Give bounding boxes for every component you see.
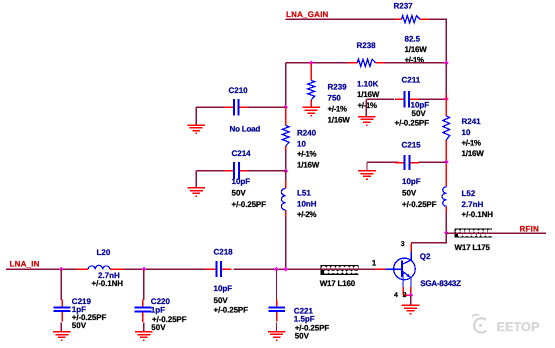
wire <box>445 140 447 187</box>
resistor R241 <box>443 116 450 140</box>
ground <box>302 107 320 115</box>
C221 labels <box>294 306 330 340</box>
svg-text:+/-1%: +/-1% <box>297 150 316 159</box>
svg-text:1pF: 1pF <box>151 305 165 314</box>
svg-text:No Load: No Load <box>230 124 261 133</box>
svg-text:C214: C214 <box>232 149 252 158</box>
microstrip W17 L160 <box>321 265 360 274</box>
svg-text:1: 1 <box>372 259 377 268</box>
junction <box>444 60 449 65</box>
svg-text:1/16W: 1/16W <box>297 160 320 169</box>
svg-text:L52: L52 <box>462 189 476 198</box>
resistor R238 <box>348 59 384 66</box>
R238 value labels <box>357 79 380 110</box>
junction <box>408 293 413 298</box>
svg-text:C211: C211 <box>402 76 421 85</box>
wire <box>446 232 546 234</box>
wire <box>285 146 287 150</box>
svg-text:750: 750 <box>328 93 342 102</box>
svg-text:LNA_GAIN: LNA_GAIN <box>286 10 329 19</box>
Q2 emitter pin 4 <box>402 287 404 295</box>
resistor R240 <box>282 126 289 147</box>
wire <box>384 62 446 64</box>
junction <box>274 267 279 272</box>
Q2 emitter pin 2 <box>410 287 412 295</box>
L51 value labels <box>297 199 317 219</box>
R240 value labels <box>297 139 320 169</box>
wire <box>276 323 278 332</box>
wire <box>248 170 286 172</box>
wire <box>445 206 447 213</box>
wire <box>366 162 368 171</box>
wire <box>445 63 447 94</box>
svg-text:3: 3 <box>401 241 405 248</box>
ground <box>135 332 153 340</box>
wire <box>419 161 447 163</box>
svg-text:2: 2 <box>403 292 407 299</box>
svg-text:LNA_IN: LNA_IN <box>10 260 40 269</box>
svg-text:+/-1%: +/-1% <box>358 101 377 110</box>
inductor L51 <box>281 188 285 210</box>
svg-text:+/-0.25PF: +/-0.25PF <box>395 118 430 127</box>
svg-text:SGA-8343Z: SGA-8343Z <box>420 279 461 288</box>
capacitor C214 <box>225 162 249 179</box>
R239 value labels <box>328 93 351 124</box>
svg-text:C218: C218 <box>214 247 234 256</box>
ground <box>187 188 205 196</box>
L52 value labels <box>462 200 494 219</box>
svg-text:+/-0.1NH: +/-0.1NH <box>92 279 124 288</box>
wire <box>411 233 446 243</box>
junction <box>283 168 288 173</box>
svg-text:R237: R237 <box>394 2 414 11</box>
microstrip W17 L175 <box>455 229 494 237</box>
svg-text:EETOP: EETOP <box>497 320 540 334</box>
capacitor C215 <box>395 155 419 170</box>
wire <box>321 268 376 270</box>
capacitor C218 <box>206 261 232 277</box>
svg-text:+/-0.25PF: +/-0.25PF <box>402 200 437 209</box>
junction <box>283 105 288 110</box>
ground <box>358 117 376 125</box>
wire <box>248 106 286 108</box>
svg-text:R240: R240 <box>297 128 317 137</box>
wire <box>195 107 197 125</box>
capacitor C219 <box>54 299 71 321</box>
wire <box>285 210 287 217</box>
resistor R239 <box>308 63 315 108</box>
C214 value labels <box>232 177 267 209</box>
svg-text:+/-1%: +/-1% <box>328 105 347 114</box>
svg-text:10pF: 10pF <box>232 177 251 186</box>
svg-text:1/16W: 1/16W <box>357 90 380 99</box>
junction <box>444 96 449 101</box>
L20 value labels <box>92 271 124 288</box>
svg-text:L51: L51 <box>297 188 311 197</box>
wire <box>124 268 207 270</box>
wire <box>285 63 287 107</box>
Q2 collector pin <box>410 244 412 253</box>
svg-text:10: 10 <box>297 139 306 148</box>
C220 labels <box>151 297 187 332</box>
svg-text:W17 L160: W17 L160 <box>320 279 356 288</box>
wire <box>410 295 412 305</box>
wire <box>60 323 62 332</box>
svg-text:1/16W: 1/16W <box>328 115 351 124</box>
junction <box>444 159 449 164</box>
junction <box>141 267 146 272</box>
svg-text:W17 L175: W17 L175 <box>455 243 491 252</box>
C215 value labels <box>402 177 437 209</box>
svg-text:Q2: Q2 <box>420 252 431 261</box>
ground <box>358 171 376 179</box>
wire <box>60 269 62 300</box>
capacitor C220 <box>134 300 151 322</box>
wire <box>143 323 145 332</box>
svg-text:4: 4 <box>394 292 398 299</box>
inductor L52 <box>442 187 446 207</box>
svg-text:+/-0.1NH: +/-0.1NH <box>462 210 494 219</box>
wire <box>286 18 395 20</box>
svg-text:1.10K: 1.10K <box>357 79 379 88</box>
resistor R237 <box>395 16 429 23</box>
svg-text:+/-0.25PF: +/-0.25PF <box>214 306 249 315</box>
wire <box>276 269 278 300</box>
svg-text:1.5pF: 1.5pF <box>294 314 315 323</box>
wire <box>6 268 77 270</box>
svg-text:+/-0.25PF: +/-0.25PF <box>232 200 267 209</box>
svg-text:50V: 50V <box>72 321 87 330</box>
svg-text:R238: R238 <box>357 41 377 50</box>
junction <box>283 267 288 272</box>
wire <box>234 268 321 270</box>
C218 value labels <box>214 284 249 315</box>
wire <box>143 269 145 300</box>
svg-text:50V: 50V <box>412 109 427 118</box>
svg-text:50V: 50V <box>214 296 229 305</box>
wire <box>445 213 447 233</box>
ground <box>53 332 71 340</box>
ground <box>187 125 205 133</box>
junction <box>444 230 449 235</box>
wire <box>419 98 447 100</box>
R237 value labels <box>405 35 428 65</box>
svg-text:10pF: 10pF <box>402 177 421 186</box>
C211 value labels <box>395 100 430 127</box>
wire <box>285 217 287 269</box>
wire <box>285 107 287 125</box>
svg-text:C215: C215 <box>402 140 422 149</box>
wire <box>286 62 348 64</box>
wire <box>367 161 399 163</box>
svg-text:50V: 50V <box>151 323 166 332</box>
junction <box>309 60 314 65</box>
svg-text:10nH: 10nH <box>297 199 317 208</box>
svg-text:R241: R241 <box>462 117 482 126</box>
wire <box>196 106 226 108</box>
svg-text:1/16W: 1/16W <box>462 149 485 158</box>
junction <box>59 267 64 272</box>
svg-text:L20: L20 <box>97 248 111 257</box>
wire <box>366 98 394 100</box>
svg-text:82.5: 82.5 <box>405 35 421 44</box>
svg-text:C210: C210 <box>229 86 249 95</box>
svg-text:2.7nH: 2.7nH <box>462 200 484 209</box>
wire <box>376 268 386 270</box>
svg-text:50V: 50V <box>295 332 310 341</box>
svg-text:50V: 50V <box>402 188 417 197</box>
wire <box>195 171 197 188</box>
svg-text:+/-2%: +/-2% <box>297 210 316 219</box>
ground <box>402 305 420 313</box>
capacitor C210 <box>225 99 249 115</box>
R241 value labels <box>462 128 485 158</box>
wire <box>285 180 287 188</box>
wire <box>285 171 287 180</box>
wire <box>285 150 287 171</box>
svg-text:R239: R239 <box>328 82 348 91</box>
svg-text:10pF: 10pF <box>214 284 233 293</box>
svg-text:50V: 50V <box>232 188 247 197</box>
wire <box>365 99 367 116</box>
capacitor C221 <box>268 299 285 321</box>
svg-text:1/16W: 1/16W <box>405 45 428 54</box>
svg-text:RFIN: RFIN <box>520 225 539 234</box>
svg-text:10: 10 <box>462 128 471 137</box>
C219 labels <box>72 297 107 330</box>
wire <box>429 19 446 63</box>
EETOP watermark icon <box>472 315 486 333</box>
wire <box>196 170 226 172</box>
transistor Q2 <box>385 252 415 287</box>
inductor L20 <box>77 265 124 269</box>
wire <box>445 94 447 116</box>
capacitor C211 <box>395 91 419 108</box>
wire <box>403 294 411 296</box>
svg-text:+/-1%: +/-1% <box>462 139 481 148</box>
ground <box>268 332 286 340</box>
